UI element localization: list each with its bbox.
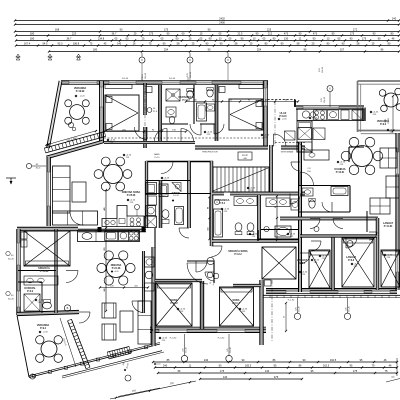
svg-text:KUPAON.: KUPAON. [24,287,36,290]
svg-text:2400: 2400 [219,21,225,25]
svg-text:KUPAONICA: KUPAONICA [179,96,194,99]
svg-text:P=11.2: P=11.2 [170,303,178,305]
svg-text:473: 473 [313,32,318,36]
svg-text:+0.20: +0.20 [114,271,119,273]
svg-text:475: 475 [274,375,279,379]
svg-text:30+20: 30+20 [349,305,351,312]
svg-text:175: 175 [149,32,154,36]
svg-text:167.4: 167.4 [24,42,31,46]
svg-text:172: 172 [353,28,358,32]
svg-text:240: 240 [204,358,209,362]
svg-text:30+20: 30+20 [186,346,188,353]
svg-text:175: 175 [350,32,355,36]
svg-text:P=6.8: P=6.8 [348,260,355,262]
svg-text:254: 254 [164,48,169,52]
svg-text:93.3: 93.3 [58,42,64,46]
svg-text:+0.20: +0.20 [80,96,86,98]
svg-text:LANHAT: LANHAT [383,222,394,225]
svg-text:+0.20: +0.20 [156,364,161,366]
svg-text:VERANDA: VERANDA [74,87,87,90]
svg-text:P=5.1: P=5.1 [299,263,306,265]
svg-text:30+20: 30+20 [324,96,326,103]
svg-text:162.5: 162.5 [330,358,337,362]
svg-text:P+0.00: P+0.00 [170,338,177,340]
svg-text:473: 473 [284,32,289,36]
svg-text:175: 175 [220,369,225,373]
svg-text:KUPAONICA: KUPAONICA [215,199,230,202]
svg-text:30+20: 30+20 [322,66,324,73]
svg-text:30+20: 30+20 [299,305,301,312]
svg-text:140: 140 [265,369,270,373]
svg-text:LANHAT: LANHAT [297,259,308,262]
svg-text:LANHAT: LANHAT [346,256,357,259]
svg-text:30+20: 30+20 [8,259,15,261]
svg-text:130: 130 [284,37,289,41]
svg-text:P=21.38: P=21.38 [112,268,121,270]
svg-text:180: 180 [30,32,35,36]
svg-text:KUHINJA: KUHINJA [334,168,345,171]
svg-text:P=25.08: P=25.08 [127,195,136,197]
svg-text:30+20: 30+20 [190,71,192,78]
svg-text:P=5.2: P=5.2 [219,203,226,205]
svg-text:175: 175 [353,369,358,373]
svg-text:P=3.9: P=3.9 [27,291,34,293]
svg-text:180: 180 [93,48,98,52]
svg-text:175: 175 [164,28,169,32]
svg-text:SPUŠT: SPUŠT [242,154,249,157]
svg-text:SOBA: SOBA [170,299,177,302]
svg-text:212: 212 [268,32,273,36]
svg-text:P+1.80: P+1.80 [288,300,295,302]
svg-text:VETROBRAN: VETROBRAN [281,151,294,154]
svg-text:240: 240 [392,17,397,21]
svg-text:336.8: 336.8 [73,42,80,46]
svg-text:DNEVNA: DNEVNA [111,264,122,267]
svg-text:P=1.5: P=1.5 [155,157,160,159]
svg-text:30+20: 30+20 [8,299,15,301]
svg-text:140: 140 [117,42,122,46]
svg-text:162.5: 162.5 [323,364,330,368]
svg-text:GARD.: GARD. [154,153,161,156]
svg-text:P=11.84: P=11.84 [384,225,393,228]
svg-text:107: 107 [340,48,345,52]
svg-text:175: 175 [362,37,367,41]
svg-text:2432: 2432 [219,17,225,21]
svg-text:P+0.00: P+0.00 [218,338,225,340]
svg-text:P=14.81: P=14.81 [336,171,345,174]
svg-text:PREDPROSTOR: PREDPROSTOR [202,152,218,154]
svg-text:SPAVAĆA: SPAVAĆA [38,267,50,270]
svg-text:225: 225 [267,28,272,32]
svg-text:P=11.2: P=11.2 [232,303,240,305]
svg-text:P=12.2: P=12.2 [234,254,242,256]
svg-text:54.5: 54.5 [43,42,49,46]
svg-text:P=9.9: P=9.9 [380,124,387,126]
svg-text:36.7: 36.7 [67,37,73,41]
svg-text:225: 225 [72,32,77,36]
svg-text:30+20: 30+20 [388,117,390,124]
svg-text:P=3.92: P=3.92 [173,195,179,197]
svg-text:SOBA: SOBA [232,299,239,302]
svg-text:30+20: 30+20 [145,72,147,79]
svg-text:180: 180 [30,37,35,41]
svg-text:254: 254 [257,48,262,52]
svg-text:ULAZ: ULAZ [280,112,287,115]
svg-text:234.8: 234.8 [98,37,105,41]
svg-text:408: 408 [243,158,246,160]
svg-text:140: 140 [223,375,228,379]
svg-text:P=180: P=180 [390,290,396,292]
svg-text:B: B [67,306,69,310]
svg-text:21.5: 21.5 [238,32,244,36]
svg-text:P=9.2: P=9.2 [40,328,47,330]
svg-text:P=1.06: P=1.06 [169,78,175,80]
svg-text:DNEVNA SOBA: DNEVNA SOBA [122,191,141,194]
svg-text:168: 168 [55,28,60,32]
svg-text:165.5: 165.5 [245,364,252,368]
svg-text:P=19.99: P=19.99 [76,91,85,93]
svg-text:P=15.88: P=15.88 [40,271,49,273]
svg-text:30+20: 30+20 [230,346,232,353]
svg-text:P=1.06: P=1.06 [122,78,128,80]
svg-text:240: 240 [163,364,168,368]
svg-text:CO: CO [307,168,311,170]
svg-text:36.7: 36.7 [112,32,118,36]
svg-text:SPAVAĆA SOBA: SPAVAĆA SOBA [228,250,248,253]
svg-text:VERANDA: VERANDA [37,324,50,327]
